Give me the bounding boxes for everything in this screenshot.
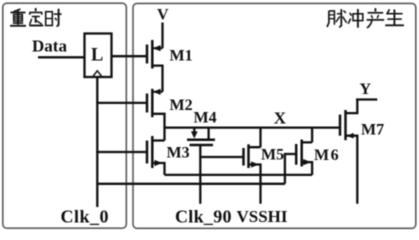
svg-text:M7: M7	[361, 122, 384, 139]
svg-text:VSSHI: VSSHI	[237, 207, 288, 226]
svg-text:M3: M3	[167, 145, 190, 162]
svg-text:M2: M2	[170, 97, 193, 114]
svg-text:Clk_0: Clk_0	[61, 207, 110, 227]
svg-text:L: L	[91, 45, 103, 65]
svg-text:M1: M1	[170, 48, 193, 65]
svg-text:V: V	[157, 7, 169, 24]
svg-text:X: X	[274, 109, 287, 128]
svg-text:M4: M4	[194, 110, 217, 127]
svg-text:M5: M5	[261, 146, 284, 163]
svg-text:Clk_90: Clk_90	[175, 207, 232, 227]
svg-text:M6: M6	[314, 147, 340, 164]
svg-text:Data: Data	[32, 36, 67, 55]
svg-text:Y: Y	[360, 81, 372, 98]
